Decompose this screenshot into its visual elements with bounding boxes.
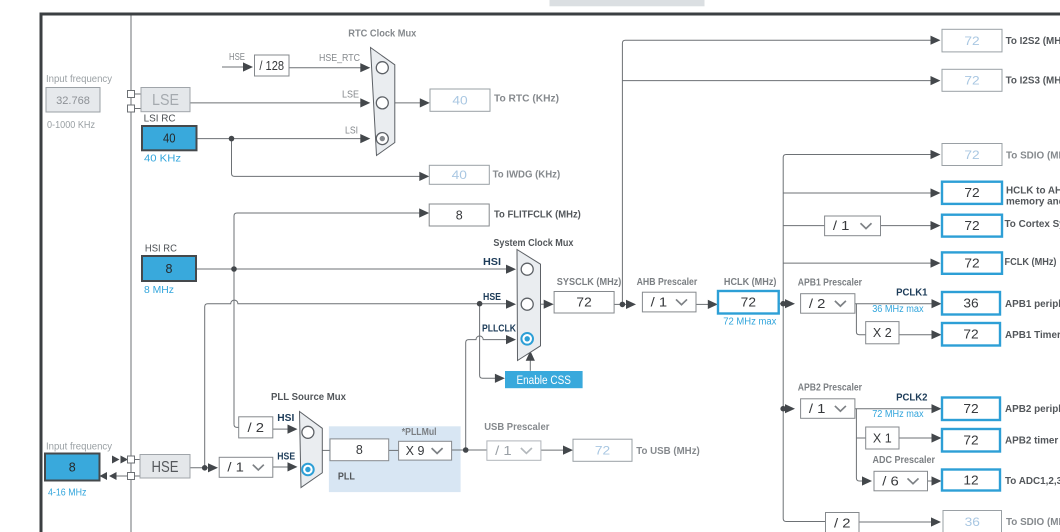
svg-text:APB2 peripheral clocks (MHz): APB2 peripheral clocks (MHz): [1005, 404, 1060, 415]
svg-text:RTC Clock Mux: RTC Clock Mux: [348, 29, 416, 40]
svg-text:HSI: HSI: [277, 413, 294, 424]
svg-text:HSI: HSI: [483, 257, 501, 268]
svg-text:36: 36: [965, 517, 980, 529]
svg-text:HCLK (MHz): HCLK (MHz): [724, 277, 777, 288]
svg-text:72: 72: [741, 296, 756, 310]
svg-text:72: 72: [964, 36, 979, 48]
svg-text:To Cortex System timer (MHz): To Cortex System timer (MHz): [1005, 219, 1060, 230]
svg-text:APB1 Timer clocks (MHz): APB1 Timer clocks (MHz): [1005, 330, 1060, 341]
svg-text:To SDIO (MHz): To SDIO (MHz): [1006, 517, 1060, 528]
svg-text:HSI RC: HSI RC: [145, 243, 177, 254]
svg-text:/ 2: / 2: [248, 421, 265, 435]
svg-text:memory and DMA (MHz): memory and DMA (MHz): [1006, 197, 1060, 208]
svg-text:HSE: HSE: [483, 292, 501, 303]
svg-text:LSI: LSI: [345, 125, 358, 136]
svg-text:36: 36: [963, 297, 978, 311]
svg-text:72 MHz max: 72 MHz max: [872, 409, 923, 420]
svg-text:/ 1: / 1: [651, 295, 668, 309]
svg-text:PCLK2: PCLK2: [896, 392, 928, 403]
svg-text:8: 8: [69, 460, 76, 474]
svg-text:X 1: X 1: [873, 431, 892, 445]
svg-text:36 MHz max: 36 MHz max: [872, 304, 923, 315]
svg-text:72: 72: [964, 76, 979, 88]
svg-text:APB1 Prescaler: APB1 Prescaler: [798, 278, 862, 289]
svg-text:72: 72: [576, 296, 591, 310]
svg-text:To SDIO (MHz): To SDIO (MHz): [1006, 151, 1060, 162]
svg-text:/ 1: / 1: [227, 461, 244, 475]
svg-text:/ 6: / 6: [882, 474, 899, 488]
svg-text:SYSCLK (MHz): SYSCLK (MHz): [557, 277, 622, 288]
svg-text:32.768: 32.768: [56, 95, 90, 107]
svg-text:PCLK1: PCLK1: [896, 287, 928, 298]
svg-text:FCLK (MHz): FCLK (MHz): [1005, 257, 1057, 268]
svg-text:HSE: HSE: [152, 459, 179, 476]
svg-text:72 MHz max: 72 MHz max: [723, 316, 776, 327]
svg-text:*PLLMul: *PLLMul: [402, 427, 437, 438]
svg-text:PLL: PLL: [338, 471, 355, 482]
svg-text:PLL Source Mux: PLL Source Mux: [271, 392, 346, 403]
svg-text:72: 72: [964, 219, 979, 233]
svg-text:0-1000 KHz: 0-1000 KHz: [47, 120, 95, 131]
svg-text:Enable CSS: Enable CSS: [516, 373, 571, 387]
svg-text:40: 40: [452, 170, 467, 182]
svg-text:Input frequency: Input frequency: [46, 74, 112, 85]
svg-text:/ 1: / 1: [833, 219, 850, 233]
svg-text:40: 40: [452, 96, 467, 108]
svg-text:APB1 peripheral clocks (MHz): APB1 peripheral clocks (MHz): [1005, 299, 1060, 310]
svg-text:LSE: LSE: [152, 92, 179, 109]
svg-text:To ADC1,2,3 (MHz): To ADC1,2,3 (MHz): [1005, 476, 1060, 487]
svg-text:PLLCLK: PLLCLK: [482, 324, 517, 335]
svg-text:USB Prescaler: USB Prescaler: [484, 422, 549, 433]
svg-text:72: 72: [964, 257, 979, 271]
svg-text:AHB Prescaler: AHB Prescaler: [637, 277, 698, 288]
svg-text:72: 72: [963, 402, 978, 416]
svg-text:HSE: HSE: [277, 452, 295, 463]
svg-text:To I2S3 (MHz): To I2S3 (MHz): [1006, 76, 1060, 87]
svg-text:8: 8: [356, 443, 363, 457]
svg-text:HCLK to AHB bus, core,: HCLK to AHB bus, core,: [1006, 186, 1060, 197]
svg-text:X 9: X 9: [406, 444, 425, 458]
svg-text:LSI RC: LSI RC: [144, 113, 176, 124]
svg-text:12: 12: [963, 473, 978, 487]
svg-text:HSE: HSE: [229, 52, 245, 63]
svg-text:/ 2: / 2: [809, 297, 826, 311]
svg-text:To USB (MHz): To USB (MHz): [636, 446, 700, 457]
svg-text:72: 72: [964, 150, 979, 162]
svg-text:APB2 Prescaler: APB2 Prescaler: [798, 383, 862, 394]
svg-text:To IWDG (KHz): To IWDG (KHz): [493, 170, 561, 181]
svg-text:System Clock Mux: System Clock Mux: [493, 238, 573, 249]
svg-text:8 MHz: 8 MHz: [144, 285, 174, 296]
svg-text:8: 8: [456, 208, 463, 222]
svg-text:To RTC (KHz): To RTC (KHz): [494, 94, 559, 105]
svg-text:LSE: LSE: [342, 90, 359, 101]
svg-text:/ 1: / 1: [809, 402, 826, 416]
svg-text:APB2 timer clocks (MHz): APB2 timer clocks (MHz): [1005, 436, 1060, 447]
svg-text:40 KHz: 40 KHz: [144, 154, 181, 165]
svg-text:40: 40: [163, 132, 176, 146]
svg-text:/ 1: / 1: [495, 444, 512, 458]
svg-text:ADC Prescaler: ADC Prescaler: [873, 455, 936, 466]
svg-text:72: 72: [963, 434, 978, 448]
svg-text:72: 72: [963, 328, 978, 342]
svg-text:X 2: X 2: [873, 326, 892, 340]
svg-text:72: 72: [964, 186, 979, 200]
svg-text:Input frequency: Input frequency: [46, 442, 112, 453]
svg-text:To FLITFCLK (MHz): To FLITFCLK (MHz): [494, 210, 581, 221]
svg-text:To I2S2 (MHz): To I2S2 (MHz): [1006, 36, 1060, 47]
svg-text:/ 128: / 128: [259, 59, 284, 73]
svg-text:/ 2: / 2: [834, 516, 851, 530]
svg-text:72: 72: [595, 446, 610, 458]
svg-text:HSE_RTC: HSE_RTC: [319, 53, 360, 64]
svg-text:8: 8: [166, 262, 173, 276]
svg-text:4-16 MHz: 4-16 MHz: [48, 488, 86, 499]
